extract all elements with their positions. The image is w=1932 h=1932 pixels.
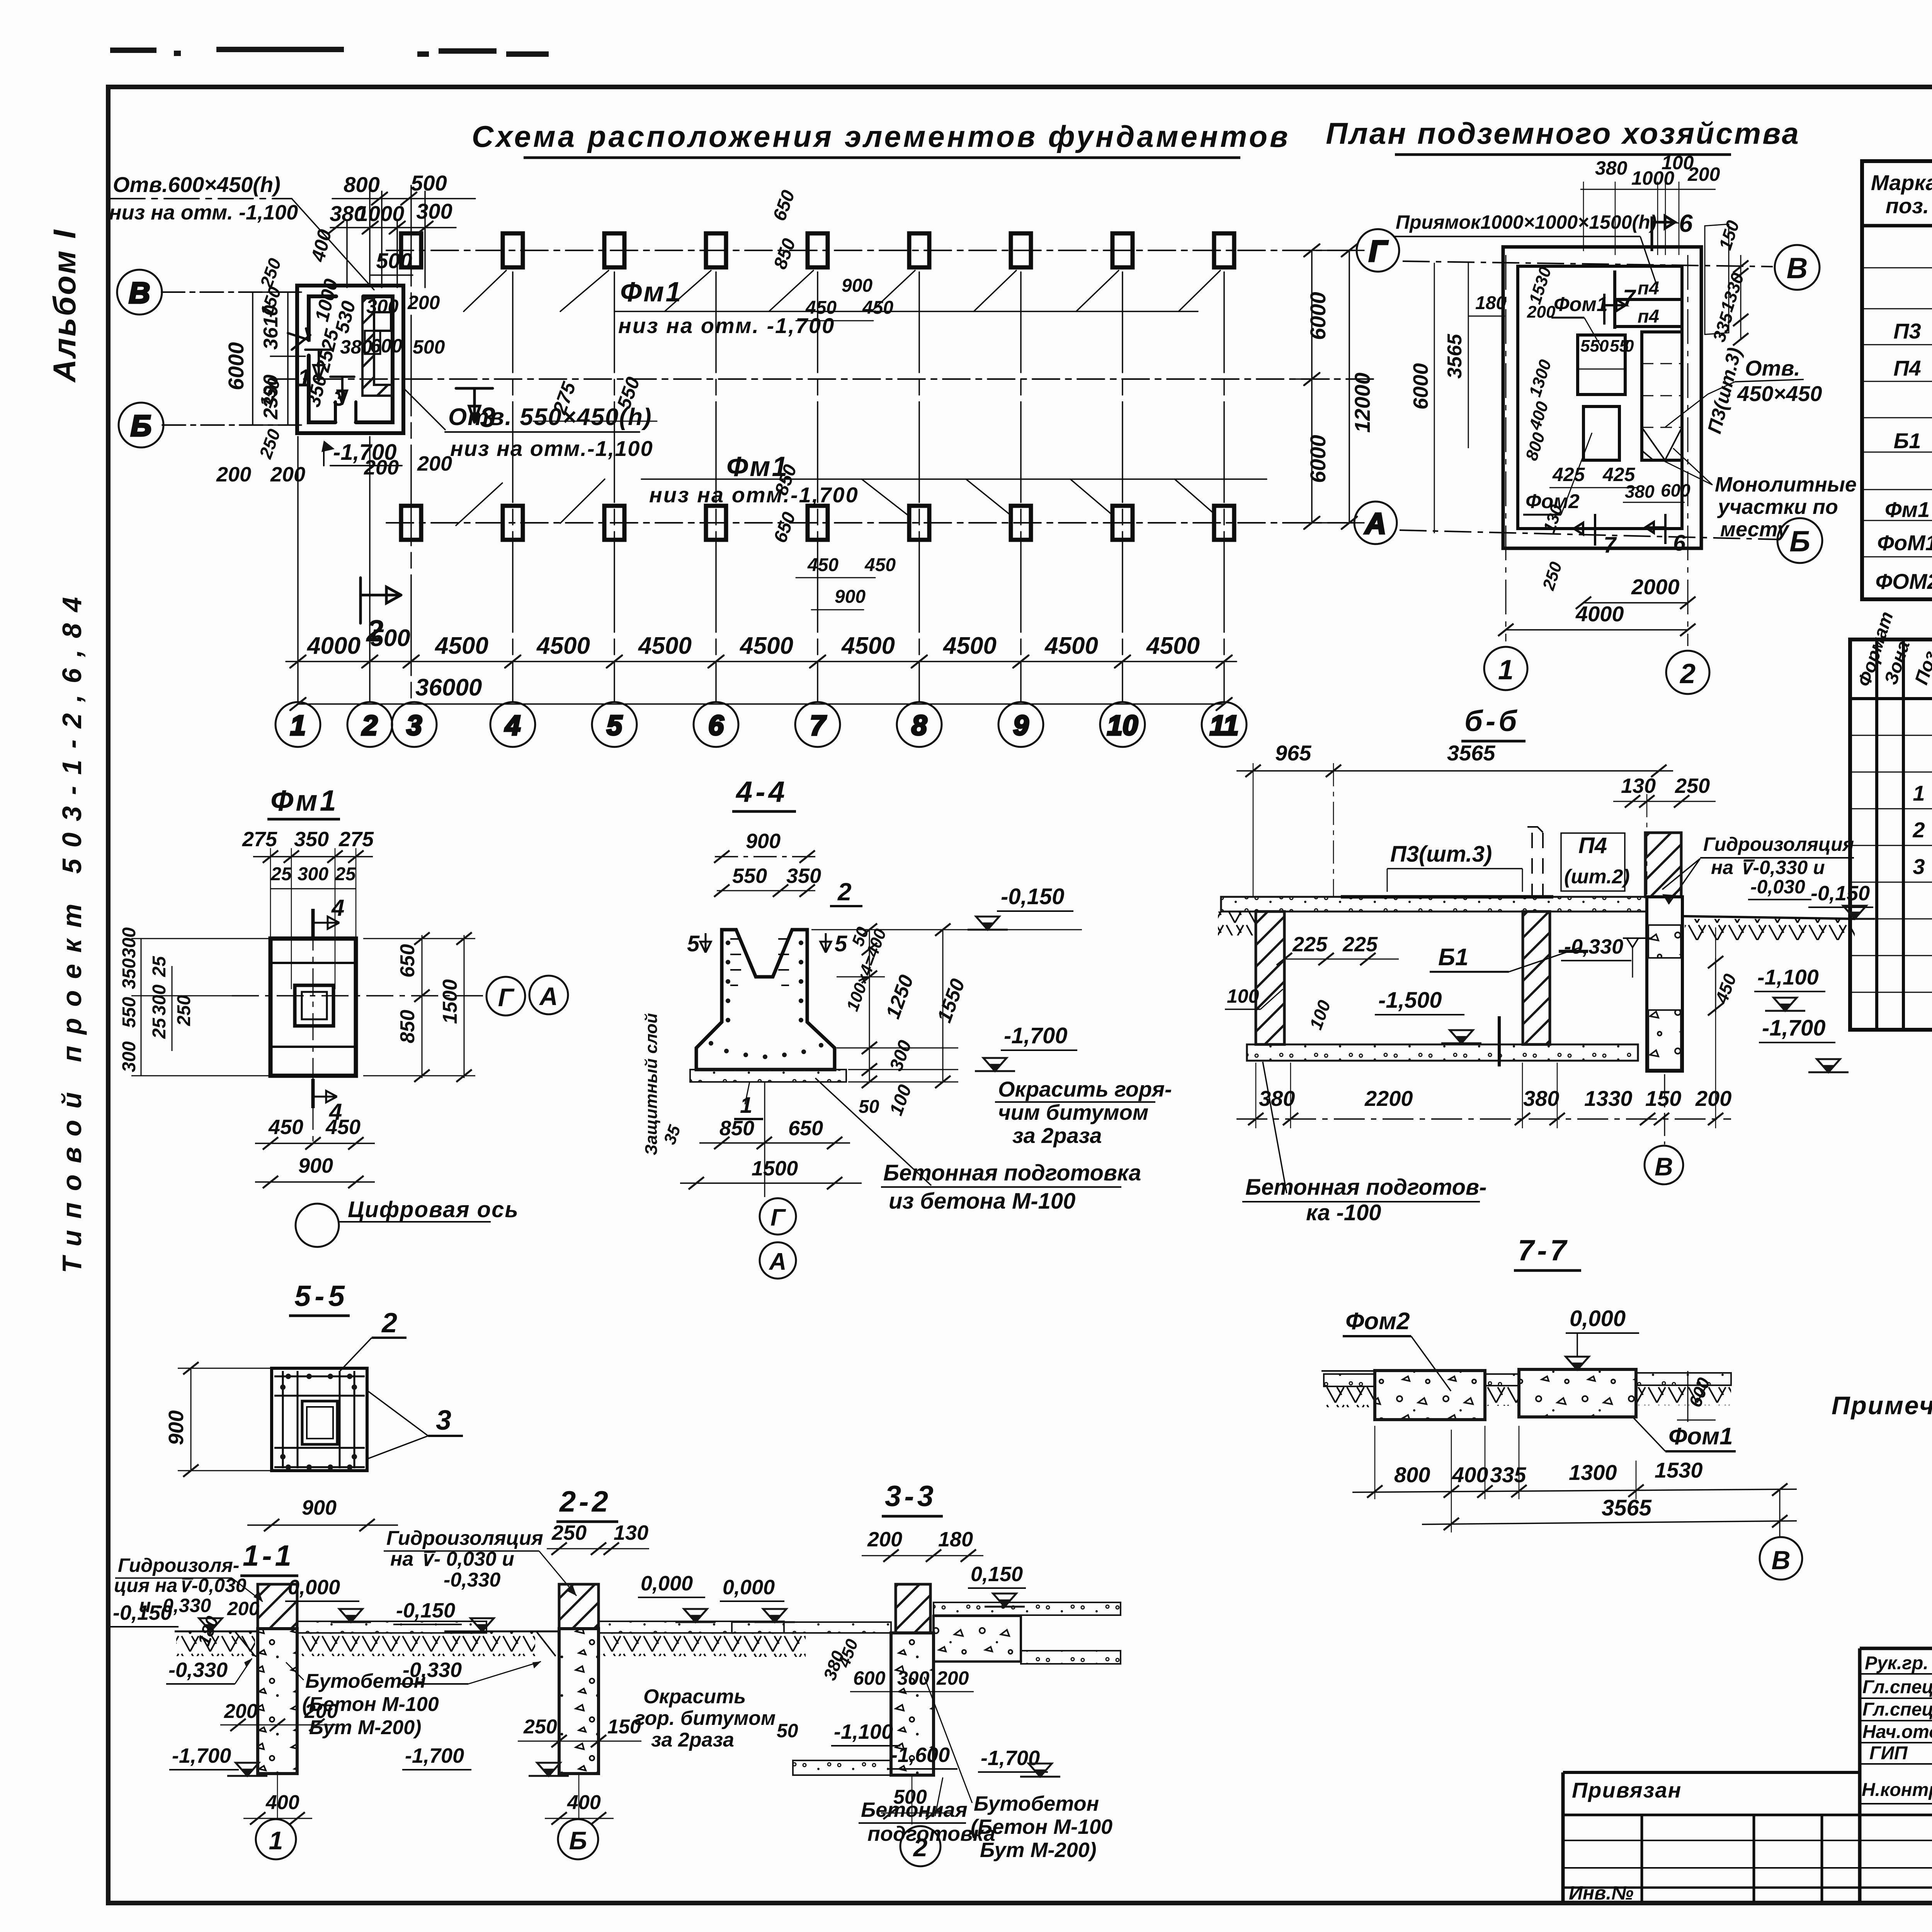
svg-text:500: 500: [370, 625, 410, 651]
svg-text:7-7: 7-7: [1518, 1234, 1570, 1267]
bottom dims 200: [216, 452, 452, 486]
svg-text:100: 100: [1227, 985, 1259, 1007]
svg-text:Г: Г: [1369, 235, 1388, 268]
axis middle line: [270, 378, 1376, 380]
Привязан box: [1563, 1772, 1932, 1902]
svg-text:-0,330: -0,330: [168, 1658, 228, 1682]
svg-text:800: 800: [1394, 1463, 1430, 1487]
svg-text:-1,700: -1,700: [1004, 1023, 1067, 1048]
svg-text:650: 650: [396, 944, 419, 978]
svg-text:3565: 3565: [1602, 1495, 1652, 1520]
rebar mesh: [274, 1371, 365, 1468]
axis 2 vertical: [1687, 255, 1689, 646]
svg-text:11: 11: [1210, 710, 1239, 741]
circle 2: [912, 1776, 913, 1825]
svg-text:250: 250: [523, 1716, 557, 1738]
svg-text:500: 500: [413, 336, 445, 358]
svg-text:4500: 4500: [841, 633, 895, 659]
svg-text:380: 380: [340, 336, 372, 358]
svg-text:Инв.№: Инв.№: [1569, 1882, 1634, 1904]
svg-text:36000: 36000: [415, 674, 482, 701]
svg-text:Схема расположения элементов: Схема расположения элементов фундаментов: [472, 119, 1290, 153]
svg-text:П4: П4: [1578, 833, 1607, 858]
svg-text:П3(шт.3): П3(шт.3): [1390, 842, 1492, 867]
section mark 4 bottom: [311, 1079, 315, 1108]
svg-text:2200: 2200: [1364, 1086, 1413, 1111]
svg-text:2: 2: [1912, 818, 1925, 842]
svg-text:200: 200: [1687, 163, 1720, 185]
svg-text:550: 550: [1580, 337, 1609, 355]
svg-text:за 2раза: за 2раза: [1012, 1123, 1102, 1148]
svg-text:-0,330: -0,330: [403, 1658, 462, 1682]
svg-text:Нач.отд.: Нач.отд.: [1862, 1722, 1932, 1742]
svg-text:-1,100: -1,100: [834, 1720, 893, 1743]
svg-text:500: 500: [411, 171, 447, 195]
svg-text:-0,330: -0,330: [444, 1569, 501, 1591]
svg-text:Б: Б: [569, 1826, 587, 1855]
svg-text:2: 2: [1679, 658, 1696, 689]
svg-text:Фм1: Фм1: [620, 277, 683, 308]
svg-text:Рук.гр.: Рук.гр.: [1865, 1653, 1929, 1673]
dim 650 850 bottom row near axis 7: [770, 462, 896, 607]
svg-text:Марка,: Марка,: [1871, 170, 1932, 195]
5-5 footing plan: [272, 1368, 367, 1471]
column: [559, 1584, 599, 1629]
axes cross: [232, 995, 485, 997]
svg-text:4500: 4500: [739, 633, 793, 659]
dim line 2 (36000): [290, 698, 1232, 710]
svg-text:Н.контр.: Н.контр.: [1862, 1780, 1932, 1800]
Фом1 chamber: [1578, 335, 1625, 395]
svg-text:350: 350: [119, 958, 139, 989]
svg-text:Гидроизоляция: Гидроизоляция: [1703, 833, 1854, 855]
svg-text:150: 150: [1645, 1086, 1681, 1111]
axis А line: [386, 522, 1353, 524]
table2 header: [1854, 609, 1932, 689]
svg-text:Г: Г: [498, 983, 515, 1012]
svg-text:5: 5: [835, 931, 847, 956]
section mark 7 bottom: [1574, 514, 1595, 546]
svg-text:на ⊽-0,330 и: на ⊽-0,330 и: [1711, 857, 1825, 878]
svg-text:А: А: [1364, 507, 1386, 540]
section 2-2: [384, 1485, 784, 1859]
svg-text:3-3: 3-3: [885, 1480, 937, 1513]
floor right: [599, 1621, 784, 1633]
left dims 6000 3565: [1434, 263, 1435, 533]
svg-text:2: 2: [913, 1833, 928, 1862]
small left dims: [255, 255, 285, 461]
svg-text:3565: 3565: [1444, 333, 1466, 379]
vertical axis lines 1..11: [298, 185, 1224, 702]
svg-text:4500: 4500: [638, 633, 692, 659]
right dim stack: [811, 923, 958, 1088]
svg-text:900: 900: [842, 276, 872, 296]
svg-text:-1,700: -1,700: [405, 1744, 464, 1767]
left dim lines В-Б: [240, 292, 305, 425]
svg-text:Бутобетон: Бутобетон: [974, 1792, 1099, 1815]
svg-text:450: 450: [268, 1116, 303, 1139]
svg-text:450: 450: [862, 298, 893, 318]
svg-text:380: 380: [1259, 1086, 1295, 1111]
dims row: [1394, 1458, 1703, 1487]
svg-text:180: 180: [1475, 293, 1506, 313]
svg-text:4500: 4500: [942, 633, 997, 659]
svg-text:200: 200: [936, 1667, 969, 1689]
svg-text:п4: п4: [1638, 278, 1659, 299]
svg-text:1: 1: [269, 1826, 283, 1855]
svg-text:ГИП: ГИП: [1869, 1743, 1908, 1764]
svg-text:А: А: [539, 982, 558, 1010]
svg-text:низ на отм.-1,700: низ на отм.-1,700: [649, 483, 859, 507]
svg-text:3: 3: [333, 386, 345, 411]
svg-text:Гл.спец.: Гл.спец.: [1862, 1677, 1932, 1697]
svg-text:400: 400: [1452, 1463, 1488, 1487]
svg-text:600: 600: [1661, 480, 1690, 500]
svg-text:Монолитные: Монолитные: [1715, 473, 1857, 496]
svg-text:-0,150: -0,150: [396, 1599, 455, 1622]
svg-text:Б: Б: [1789, 525, 1810, 558]
svg-text:В: В: [129, 277, 150, 310]
svg-text:4000: 4000: [1575, 602, 1624, 626]
svg-text:1330: 1330: [1584, 1086, 1633, 1111]
svg-text:0,000: 0,000: [288, 1576, 340, 1599]
svg-text:550: 550: [732, 864, 767, 888]
svg-text:1530: 1530: [1655, 1458, 1703, 1482]
svg-text:ФОМ2: ФОМ2: [1875, 569, 1932, 594]
svg-text:10: 10: [1107, 710, 1138, 741]
ground left edge: [1218, 912, 1257, 935]
svg-text:25: 25: [149, 956, 170, 977]
circles Г А right: [486, 977, 525, 1015]
svg-text:Бетонная подготовка: Бетонная подготовка: [883, 1160, 1141, 1185]
ground right: [1682, 916, 1855, 919]
svg-text:450: 450: [805, 298, 837, 318]
svg-text:Фм1: Фм1: [1885, 497, 1930, 522]
svg-text:400: 400: [265, 1791, 299, 1814]
ground left: [444, 1631, 559, 1633]
svg-text:4500: 4500: [1044, 633, 1098, 659]
svg-text:В: В: [1771, 1546, 1790, 1575]
svg-text:Фм1: Фм1: [270, 784, 338, 817]
svg-text:900: 900: [746, 830, 781, 853]
axis Г line: [386, 250, 1355, 251]
svg-text:8: 8: [912, 710, 927, 741]
svg-text:В: В: [1655, 1152, 1673, 1181]
svg-text:5-5: 5-5: [294, 1280, 349, 1313]
svg-text:275: 275: [338, 828, 374, 851]
axis top Г-В: [1403, 261, 1773, 267]
svg-text:4000: 4000: [306, 633, 361, 659]
svg-text:380: 380: [1523, 1086, 1559, 1111]
section mark 1 inside: [305, 350, 332, 381]
svg-text:1-1: 1-1: [243, 1539, 294, 1572]
dashed riser: [1532, 833, 1543, 898]
svg-text:12000: 12000: [1350, 372, 1374, 433]
svg-text:0,150: 0,150: [971, 1563, 1023, 1586]
table2 rows: [1912, 707, 1932, 993]
svg-text:300: 300: [149, 985, 170, 1015]
svg-text:из бетона М-100: из бетона М-100: [889, 1189, 1075, 1214]
svg-text:200: 200: [304, 1700, 338, 1723]
svg-text:600: 600: [853, 1667, 886, 1689]
svg-text:низ на отм.-1,100: низ на отм.-1,100: [450, 436, 653, 461]
section mark 3 inside: [330, 377, 354, 404]
svg-text:1: 1: [1913, 781, 1925, 805]
svg-text:225: 225: [1342, 933, 1378, 956]
svg-text:2: 2: [381, 1308, 397, 1338]
bottom dims: [1259, 1086, 1731, 1111]
channel П3: [1642, 332, 1682, 460]
svg-text:200: 200: [867, 1528, 902, 1551]
svg-text:-0,330: -0,330: [1564, 935, 1623, 958]
axis bottom А-Б: [1400, 530, 1777, 539]
svg-text:900: 900: [165, 1410, 188, 1445]
svg-text:Гидроизоля-: Гидроизоля-: [118, 1554, 239, 1576]
svg-text:25: 25: [270, 864, 292, 884]
svg-text:350: 350: [294, 828, 329, 851]
floor slab: [1221, 897, 1647, 912]
svg-text:4: 4: [331, 895, 344, 921]
svg-text:Г: Г: [770, 1204, 786, 1231]
svg-text:1300: 1300: [1569, 1460, 1617, 1485]
svg-text:чим битумом: чим битумом: [998, 1100, 1148, 1124]
svg-text:ка -100: ка -100: [1306, 1200, 1381, 1225]
svg-text:300: 300: [298, 864, 328, 884]
svg-text:900: 900: [835, 587, 866, 607]
svg-text:300: 300: [119, 1041, 139, 1072]
svg-text:335: 335: [1490, 1463, 1526, 1487]
personnel rows: [1862, 1652, 1932, 1800]
dims 275 550: [533, 421, 657, 422]
svg-text:П3: П3: [1893, 319, 1921, 343]
svg-text:600: 600: [370, 335, 403, 357]
svg-text:Отв.: Отв.: [1745, 356, 1800, 380]
подготовка strip: [690, 1070, 846, 1082]
section mark 7 left top: [288, 328, 310, 350]
axis circles 1-11: [276, 702, 1247, 747]
svg-text:б-б: б-б: [1464, 705, 1520, 738]
svg-text:4-4: 4-4: [735, 776, 788, 808]
svg-text:Б1: Б1: [1438, 944, 1468, 971]
wall + column: [896, 1584, 930, 1633]
circle В: [1779, 1490, 1781, 1537]
svg-text:участки по: участки по: [1717, 495, 1838, 519]
block Фом2: [1375, 1371, 1485, 1420]
svg-text:130: 130: [614, 1521, 648, 1544]
svg-text:за 2раза: за 2раза: [651, 1729, 734, 1751]
svg-text:-1,600: -1,600: [891, 1743, 950, 1767]
section 3-3: [720, 1480, 1121, 1866]
rebar hooks in cup walls: [730, 939, 789, 985]
svg-text:6000: 6000: [1306, 292, 1330, 340]
section mark 6 top: [1652, 216, 1675, 251]
svg-text:7: 7: [1623, 285, 1636, 310]
svg-text:Фом1: Фом1: [1554, 293, 1608, 316]
svg-text:1: 1: [290, 710, 306, 741]
right side dims 6000/12000: [1291, 244, 1364, 529]
svg-text:500: 500: [893, 1786, 927, 1808]
svg-text:50: 50: [859, 1097, 879, 1117]
pit left wall: [1256, 912, 1284, 1044]
cup inner line: [736, 930, 792, 977]
svg-text:450: 450: [864, 555, 896, 575]
vertical guides: [270, 848, 356, 989]
svg-text:6: 6: [708, 710, 724, 741]
middle strip: [1485, 1374, 1519, 1386]
dim line 1 (4000/500/4500...): [286, 655, 1236, 668]
svg-text:низ на отм. -1,100: низ на отм. -1,100: [109, 201, 298, 224]
svg-text:3: 3: [406, 710, 422, 741]
svg-text:Альбом I: Альбом I: [47, 228, 82, 383]
svg-text:3: 3: [480, 402, 495, 433]
right dims 150 1330 335: [1740, 255, 1742, 340]
svg-text:Б1: Б1: [1894, 429, 1921, 453]
svg-text:Бут М-200): Бут М-200): [980, 1838, 1097, 1862]
svg-text:275: 275: [242, 828, 277, 851]
svg-text:Бетонная подготов-: Бетонная подготов-: [1245, 1175, 1486, 1200]
internal channel wall hatched: [362, 298, 392, 396]
pit right wall: [1523, 912, 1550, 1044]
svg-text:225: 225: [1292, 933, 1328, 956]
svg-text:965: 965: [1275, 741, 1311, 765]
svg-text:3: 3: [436, 1405, 451, 1436]
dims 275 350 275: [242, 828, 374, 851]
svg-text:Цифровая ось: Цифровая ось: [348, 1197, 519, 1222]
svg-text:А: А: [769, 1248, 787, 1275]
svg-text:200: 200: [216, 463, 251, 486]
svg-text:200: 200: [270, 463, 305, 486]
svg-text:4500: 4500: [536, 633, 590, 659]
pit bottom подготовка: [1247, 1044, 1638, 1061]
svg-text:2-2: 2-2: [559, 1485, 611, 1518]
svg-text:6000: 6000: [1409, 363, 1432, 410]
letter circles: [117, 229, 1399, 544]
svg-text:-1,100: -1,100: [1757, 965, 1819, 989]
svg-text:300: 300: [416, 199, 452, 223]
svg-text:П4: П4: [1893, 356, 1921, 380]
columns row А: [401, 506, 1234, 540]
svg-text:380: 380: [1625, 481, 1655, 502]
svg-text:гор. битумом: гор. битумом: [634, 1707, 776, 1730]
dim lines above block: [328, 191, 475, 287]
svg-text:Фом2: Фом2: [1345, 1308, 1410, 1335]
leader lines ФМ1 top row: [464, 270, 1220, 311]
svg-text:ФоМ1: ФоМ1: [1877, 531, 1932, 555]
svg-text:180: 180: [938, 1528, 973, 1551]
left dims: [131, 939, 274, 1076]
svg-text:450: 450: [325, 1116, 361, 1139]
svg-text:6: 6: [1679, 209, 1693, 237]
svg-text:Окрасить: Окрасить: [643, 1685, 746, 1708]
svg-text:на ⊽- 0,030 и: на ⊽- 0,030 и: [390, 1548, 514, 1570]
columns row Г: [401, 233, 1234, 267]
svg-text:150: 150: [607, 1716, 641, 1738]
svg-text:250: 250: [1675, 774, 1710, 798]
svg-text:6000: 6000: [1306, 435, 1330, 483]
svg-text:Примечания к листу см. КЖ-3: Примечания к листу см. КЖ-3.: [1832, 1391, 1932, 1420]
svg-text:4: 4: [504, 710, 520, 741]
svg-text:Защитный слой: Защитный слой: [642, 1013, 661, 1155]
svg-text:900: 900: [302, 1496, 337, 1519]
svg-text:-0,030: -0,030: [1750, 876, 1805, 898]
circle Б: [578, 1774, 580, 1818]
svg-text:1500: 1500: [439, 979, 461, 1024]
svg-text:Приямок1000×1000×1500(h): Приямок1000×1000×1500(h): [1396, 211, 1656, 233]
svg-text:Фом1: Фом1: [1668, 1423, 1733, 1450]
svg-text:Б: Б: [131, 410, 151, 442]
circles Г А below: [764, 1083, 765, 1197]
svg-text:-0,150: -0,150: [1001, 884, 1064, 909]
section 1-1: [111, 1539, 486, 1859]
svg-text:-1,500: -1,500: [1378, 988, 1442, 1013]
svg-text:ция на⊽-0,030: ция на⊽-0,030: [114, 1575, 247, 1596]
svg-text:200: 200: [224, 1700, 258, 1723]
footing body: [696, 930, 835, 1070]
Фом2 chamber: [1583, 406, 1619, 460]
axis Б line: [162, 424, 299, 426]
axis В line: [162, 291, 299, 293]
svg-text:п4: п4: [1638, 306, 1659, 327]
axis 1 vertical: [1505, 255, 1507, 641]
svg-text:550: 550: [119, 997, 139, 1028]
svg-text:0,000: 0,000: [723, 1576, 775, 1599]
leader бетонная подготовка: [815, 1078, 931, 1185]
svg-text:200: 200: [227, 1598, 260, 1619]
svg-text:3565: 3565: [1447, 741, 1495, 765]
svg-text:7: 7: [1604, 532, 1617, 558]
section mark 3 right: [456, 388, 493, 422]
svg-text:900: 900: [298, 1154, 333, 1177]
svg-text:200: 200: [1695, 1086, 1731, 1111]
circles 1 2 below: [1484, 647, 1527, 690]
svg-text:380: 380: [1595, 157, 1628, 179]
svg-text:0,000: 0,000: [641, 1572, 693, 1595]
svg-text:800: 800: [344, 172, 379, 197]
svg-text:650: 650: [788, 1117, 823, 1140]
column: [258, 1584, 297, 1629]
подготовка strip left: [793, 1760, 891, 1775]
svg-text:1: 1: [298, 364, 311, 392]
boiler block inner wall: [309, 296, 393, 422]
svg-text:Привязан: Привязан: [1572, 1778, 1682, 1802]
svg-text:2: 2: [361, 710, 378, 741]
section mark 6 bottom: [1645, 514, 1665, 544]
svg-text:1: 1: [1498, 655, 1514, 685]
svg-text:6: 6: [1673, 531, 1686, 556]
svg-text:850: 850: [719, 1117, 754, 1140]
svg-text:5: 5: [687, 931, 700, 956]
svg-text:-0,150: -0,150: [1811, 882, 1870, 905]
right dims: [363, 932, 475, 1082]
svg-text:130: 130: [1621, 774, 1656, 798]
svg-text:425: 425: [1552, 464, 1585, 485]
right foundation column: [1647, 897, 1682, 1071]
svg-text:6000: 6000: [224, 342, 248, 390]
callout Отв.550х450: [405, 389, 445, 430]
floor right: [297, 1621, 486, 1633]
paper top edge marks: [110, 49, 549, 54]
svg-text:План подземного хозяйства: План подземного хозяйства: [1326, 116, 1800, 150]
table1 grid: [1862, 161, 1932, 599]
svg-text:поз.: поз.: [1886, 194, 1929, 218]
right strip: [1636, 1373, 1731, 1385]
svg-text:2000: 2000: [1631, 575, 1680, 599]
svg-text:250: 250: [551, 1521, 587, 1544]
svg-text:В: В: [1787, 252, 1808, 285]
svg-text:9: 9: [1013, 710, 1029, 741]
inner wall: [1518, 266, 1682, 529]
svg-text:3: 3: [1913, 854, 1925, 879]
